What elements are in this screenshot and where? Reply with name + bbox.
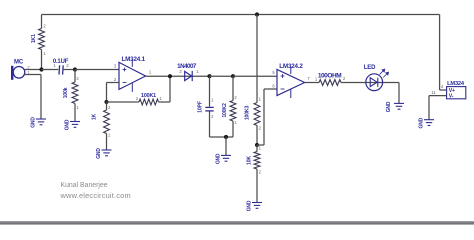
wire C 10PF to bottom rail (209, 112, 211, 138)
microphone MC (11, 66, 13, 80)
bottom bar (0, 221, 474, 222)
diode D1 1N4007 (185, 71, 192, 80)
wire C 0.1UF to node B (64, 69, 75, 71)
svg-text:1K: 1K (92, 113, 98, 120)
wire op-amp minus input (107, 82, 120, 84)
LED (366, 74, 383, 91)
resistor 100K2 (230, 101, 236, 122)
svg-text:GND: GND (65, 119, 71, 130)
ground C 10PF / R 100K2 (221, 155, 231, 161)
wire op-amp 2 output (305, 82, 319, 84)
wire node F to op-amp 2 + input (233, 75, 277, 77)
svg-text:LM324.1: LM324.1 (121, 56, 145, 63)
ground R 100k (70, 122, 80, 128)
wire node C down to R 1K (106, 102, 108, 110)
ground R 10K (252, 203, 262, 209)
node C (feedback / minus input / 1K) (104, 100, 108, 104)
resistor 100OHM (319, 80, 341, 86)
wire rail drop to R 1K1 (41, 15, 43, 29)
resistor 100k (72, 82, 78, 103)
svg-text:100k: 100k (63, 87, 69, 98)
resistor 100K3 (254, 103, 260, 126)
svg-text:GND: GND (247, 200, 253, 211)
node H (divider mid) (255, 143, 259, 147)
svg-text:www.eleccircuit.com: www.eleccircuit.com (60, 191, 131, 200)
node top-rail junction (255, 12, 259, 16)
resistor 1K1 (39, 29, 45, 50)
ground R 1K (102, 150, 112, 156)
svg-text:Kunal Banerjee: Kunal Banerjee (61, 182, 108, 189)
svg-text:MC: MC (14, 60, 24, 66)
wire bottom rail (210, 136, 234, 138)
wire rail drop to LM324 V+ (439, 15, 441, 91)
svg-text:100K2: 100K2 (222, 103, 228, 118)
node A (mic/1K1/C1) (39, 67, 43, 71)
svg-text:GND: GND (386, 101, 392, 112)
svg-text:100K3: 100K3 (244, 106, 250, 121)
wire node B to op-amp + input (75, 69, 119, 71)
ground MC (36, 119, 46, 125)
wire LM324 V- to ground (429, 95, 447, 97)
wire op-amp output (146, 75, 210, 77)
ground LED (394, 103, 404, 109)
svg-text:100OHM: 100OHM (318, 72, 341, 79)
node B (C1/R 100k/op-amp input) (73, 67, 77, 71)
wire LED to ground (398, 83, 400, 104)
wire node A to C 0.1UF (42, 69, 59, 71)
wire R 100k to ground (74, 104, 76, 122)
resistor 100K1 (139, 99, 159, 105)
node E (diode/C 10PF) (207, 74, 211, 78)
ground LM324 V- (424, 120, 434, 126)
svg-text:GND: GND (31, 117, 37, 128)
node F (R 100K2) (231, 74, 235, 78)
svg-text:V-: V- (449, 94, 454, 100)
node D (output/feedback) (168, 74, 172, 78)
svg-text:100K1: 100K1 (141, 93, 156, 99)
svg-text:LED: LED (364, 65, 376, 71)
svg-text:10K: 10K (246, 156, 252, 165)
wire R 10K to ground (256, 169, 258, 202)
capacitor 10PF (205, 107, 213, 111)
svg-text:10PF: 10PF (197, 101, 203, 113)
svg-text:1K1: 1K1 (31, 34, 37, 43)
svg-text:GND: GND (419, 117, 425, 128)
wire node E down to C 10PF (209, 76, 211, 106)
svg-text:LM324: LM324 (447, 81, 465, 87)
wire node F down to R 100K2 (232, 76, 234, 100)
svg-text:GND: GND (216, 153, 222, 164)
wire 1K1 to mic node (41, 50, 43, 70)
svg-text:11: 11 (431, 90, 436, 95)
capacitor 0.1UF (59, 65, 63, 74)
wire node C to R 100K1 (107, 101, 140, 103)
resistor 1K (104, 110, 110, 134)
wire op-amp 2 minus input to node H (264, 88, 277, 90)
node G (ground tap) (224, 135, 228, 139)
wire R 100OHM to LED (341, 82, 399, 84)
power box LM324 (447, 87, 466, 99)
wire R 1K to ground (106, 134, 108, 150)
wire R 100K1 to output node (159, 101, 171, 103)
op-amp U1 LM324.1 (119, 62, 146, 89)
resistor 10K (254, 152, 260, 170)
wire node G to ground (225, 137, 227, 155)
wire node E to node F (210, 75, 234, 77)
wire R 100K3 to node H (256, 126, 258, 146)
wire top V+ rail (42, 14, 440, 16)
wire node B down to R 100k (74, 70, 76, 83)
wire node H to R 10K (256, 145, 258, 152)
svg-text:GND: GND (96, 148, 102, 159)
wire MC pin2 to node A (24, 69, 41, 71)
svg-text:LM324.2: LM324.2 (279, 63, 303, 70)
op-amp U2 LM324.2 (277, 70, 305, 96)
wire R 100K2 to bottom rail (232, 121, 234, 137)
wire V+ rail drop to divider (256, 15, 258, 103)
wire MC pin1 down (24, 74, 41, 76)
